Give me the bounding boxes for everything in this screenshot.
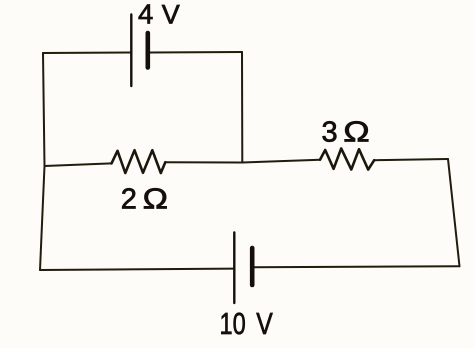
resistor R 3 ohm — [320, 149, 374, 170]
battery B1 4V short thick plate — [146, 33, 151, 68]
svg-text:2: 2 — [121, 184, 137, 216]
battery B1 4V long plate — [130, 15, 132, 87]
wire top-left horizontal — [43, 52, 131, 55]
svg-text:10: 10 — [220, 306, 246, 341]
wire left vertical — [40, 53, 45, 270]
resistor R 2 ohm — [112, 150, 166, 173]
wire top-right horizontal — [150, 51, 242, 54]
svg-text:V: V — [162, 0, 180, 30]
svg-text:4: 4 — [138, 0, 153, 30]
wire middle-center segment — [165, 160, 320, 163]
svg-text:Ω: Ω — [343, 116, 369, 148]
wire bottom-left segment — [40, 269, 234, 270]
wire right vertical — [448, 159, 460, 266]
battery B2 10V long plate — [233, 233, 235, 304]
svg-text:3: 3 — [322, 117, 338, 149]
wire middle-right segment — [374, 159, 448, 160]
wire bottom-right segment — [253, 265, 460, 268]
wire upper-loop right vertical — [241, 52, 243, 163]
battery B2 10V short thick plate — [250, 248, 255, 285]
svg-text:Ω: Ω — [143, 182, 168, 215]
svg-text:V: V — [256, 306, 273, 340]
wire middle-left segment — [45, 163, 112, 166]
